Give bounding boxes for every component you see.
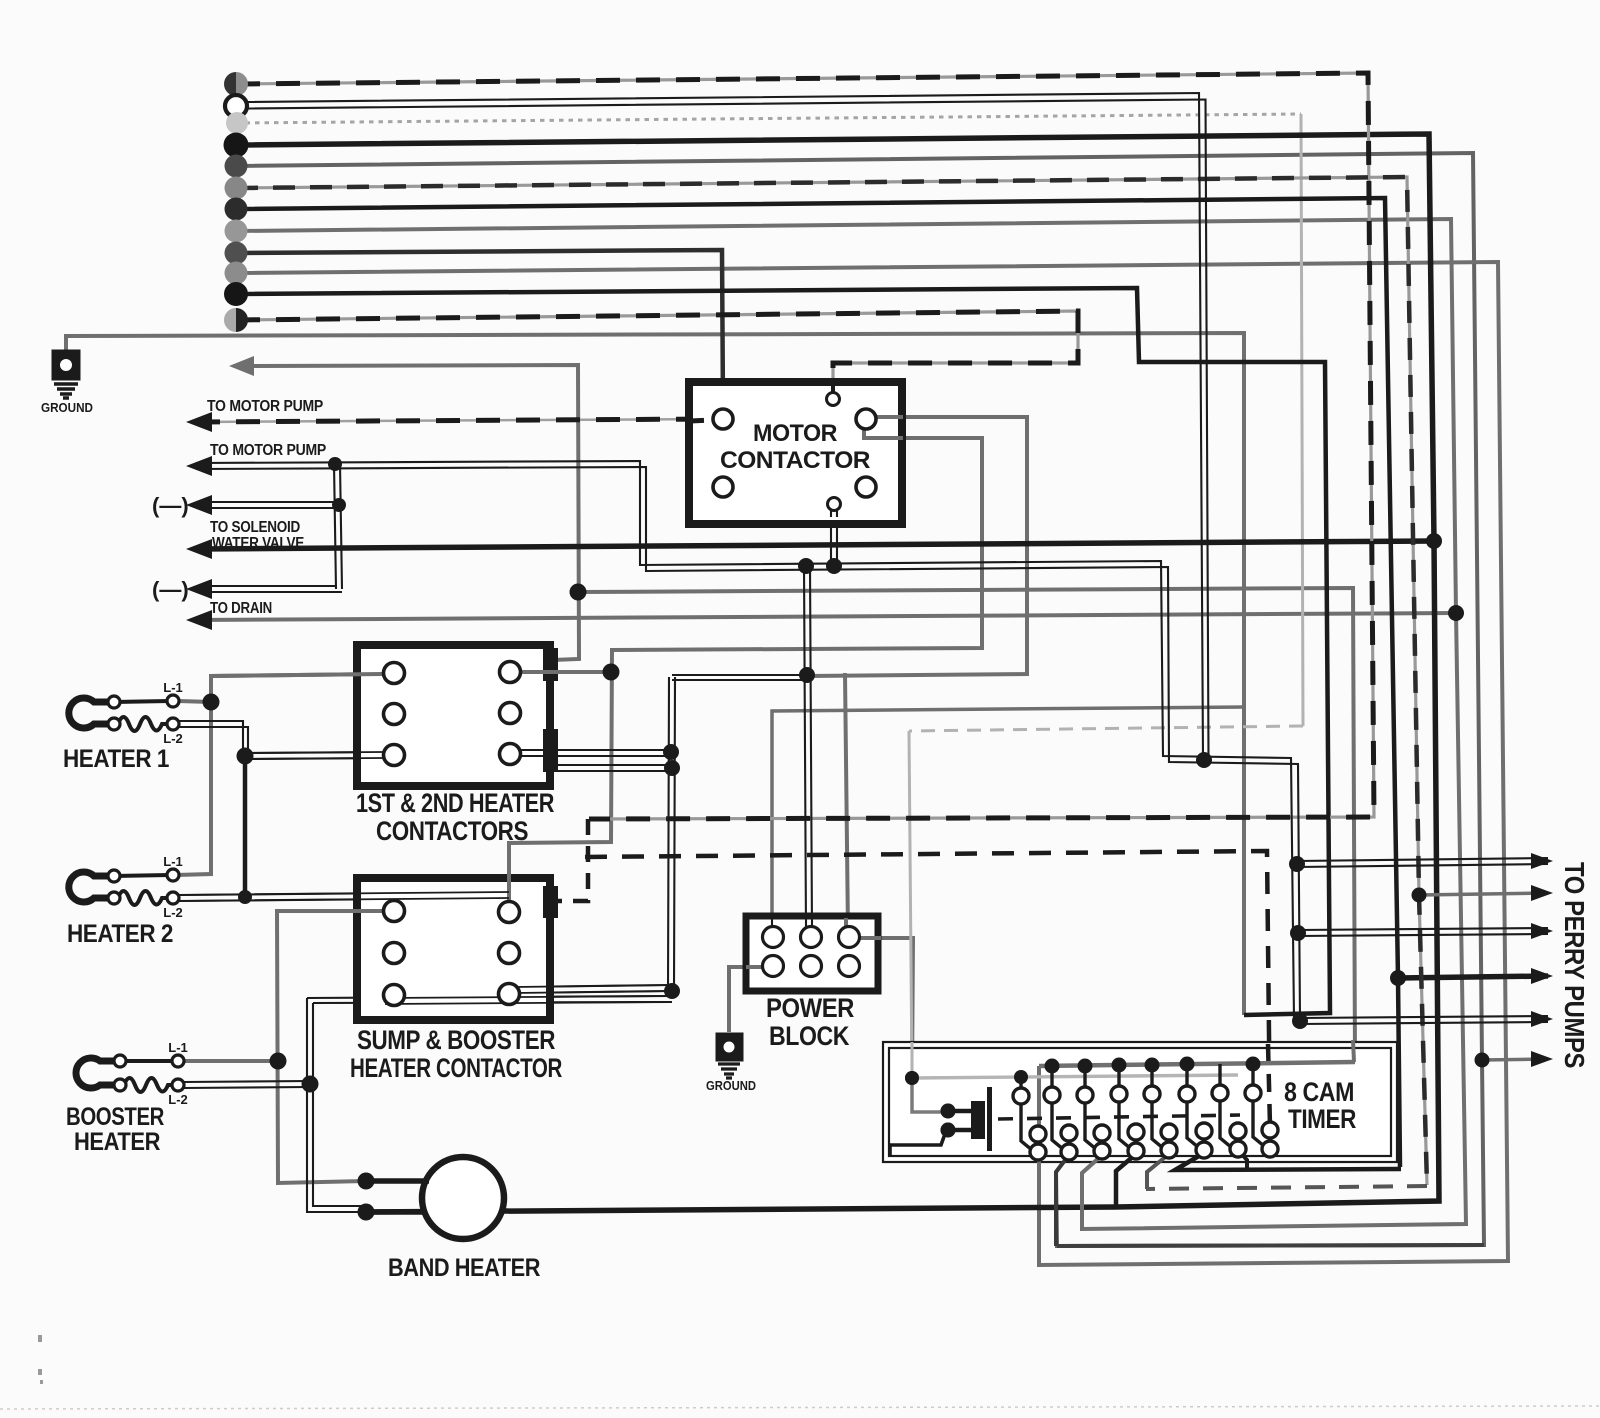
svg-text:TIMER: TIMER: [1288, 1104, 1356, 1134]
svg-text:L-2: L-2: [168, 1092, 188, 1107]
svg-text:TO MOTOR PUMP: TO MOTOR PUMP: [207, 398, 323, 415]
svg-text:MOTOR: MOTOR: [753, 420, 838, 447]
svg-text:CONTACTORS: CONTACTORS: [376, 816, 528, 846]
svg-text:HEATER CONTACTOR: HEATER CONTACTOR: [350, 1053, 562, 1083]
svg-text:TO MOTOR PUMP: TO MOTOR PUMP: [210, 442, 326, 459]
svg-text:GROUND: GROUND: [41, 400, 93, 415]
svg-text:(—): (—): [152, 577, 189, 602]
svg-text:BAND HEATER: BAND HEATER: [388, 1254, 540, 1282]
svg-text:8 CAM: 8 CAM: [1284, 1077, 1354, 1107]
svg-text:BLOCK: BLOCK: [769, 1021, 850, 1051]
svg-text:L-2: L-2: [163, 731, 183, 746]
svg-text:L-2: L-2: [163, 905, 183, 920]
svg-text:TO PERRY PUMPS: TO PERRY PUMPS: [1559, 862, 1590, 1068]
svg-text:CONTACTOR: CONTACTOR: [720, 447, 871, 474]
svg-text:POWER: POWER: [766, 993, 854, 1023]
svg-text:L-1: L-1: [163, 854, 183, 869]
svg-text:HEATER 2: HEATER 2: [67, 920, 173, 948]
svg-text:HEATER: HEATER: [74, 1128, 160, 1156]
svg-text:L-1: L-1: [163, 680, 183, 695]
svg-text:(—): (—): [152, 493, 189, 518]
svg-text:HEATER 1: HEATER 1: [63, 745, 170, 773]
svg-text:L-1: L-1: [168, 1040, 188, 1055]
svg-text:GROUND: GROUND: [706, 1078, 756, 1093]
svg-text:BOOSTER: BOOSTER: [66, 1103, 164, 1131]
svg-text:WATER VALVE: WATER VALVE: [212, 535, 304, 552]
svg-text:TO SOLENOID: TO SOLENOID: [210, 519, 300, 536]
svg-text:1ST & 2ND HEATER: 1ST & 2ND HEATER: [356, 788, 554, 818]
svg-text:TO DRAIN: TO DRAIN: [210, 600, 272, 617]
svg-text:SUMP & BOOSTER: SUMP & BOOSTER: [357, 1025, 555, 1055]
